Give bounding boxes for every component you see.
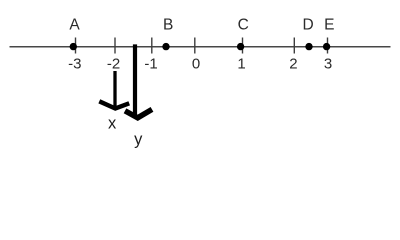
tick 1 <box>242 38 244 54</box>
svg-text:1: 1 <box>237 55 245 72</box>
svg-text:x: x <box>108 115 117 133</box>
svg-text:-1: -1 <box>144 55 157 72</box>
arrow x head <box>99 101 129 108</box>
arrow y head <box>125 109 152 117</box>
svg-text:3: 3 <box>324 55 332 72</box>
svg-text:B: B <box>163 16 173 33</box>
tick -3 <box>75 38 77 54</box>
svg-text:D: D <box>302 16 313 33</box>
tick 0 <box>194 38 196 54</box>
svg-text:y: y <box>134 131 143 149</box>
tick 3 <box>327 38 329 54</box>
svg-text:A: A <box>69 16 80 33</box>
arrow x shaft <box>113 71 116 110</box>
arrow y shaft <box>133 44 137 114</box>
point B dot <box>162 43 169 50</box>
svg-text:E: E <box>324 16 334 33</box>
tick -1 <box>151 38 153 54</box>
point E dot <box>323 43 330 50</box>
point C dot <box>237 43 244 50</box>
svg-text:-3: -3 <box>68 55 81 72</box>
svg-text:-2: -2 <box>107 55 120 72</box>
number line <box>10 46 391 48</box>
tick 2 <box>293 38 295 54</box>
svg-text:2: 2 <box>289 55 297 72</box>
point A dot <box>70 43 77 50</box>
svg-text:0: 0 <box>192 55 200 72</box>
svg-text:C: C <box>238 16 249 33</box>
point D dot <box>305 43 312 50</box>
tick -2 <box>114 38 116 54</box>
